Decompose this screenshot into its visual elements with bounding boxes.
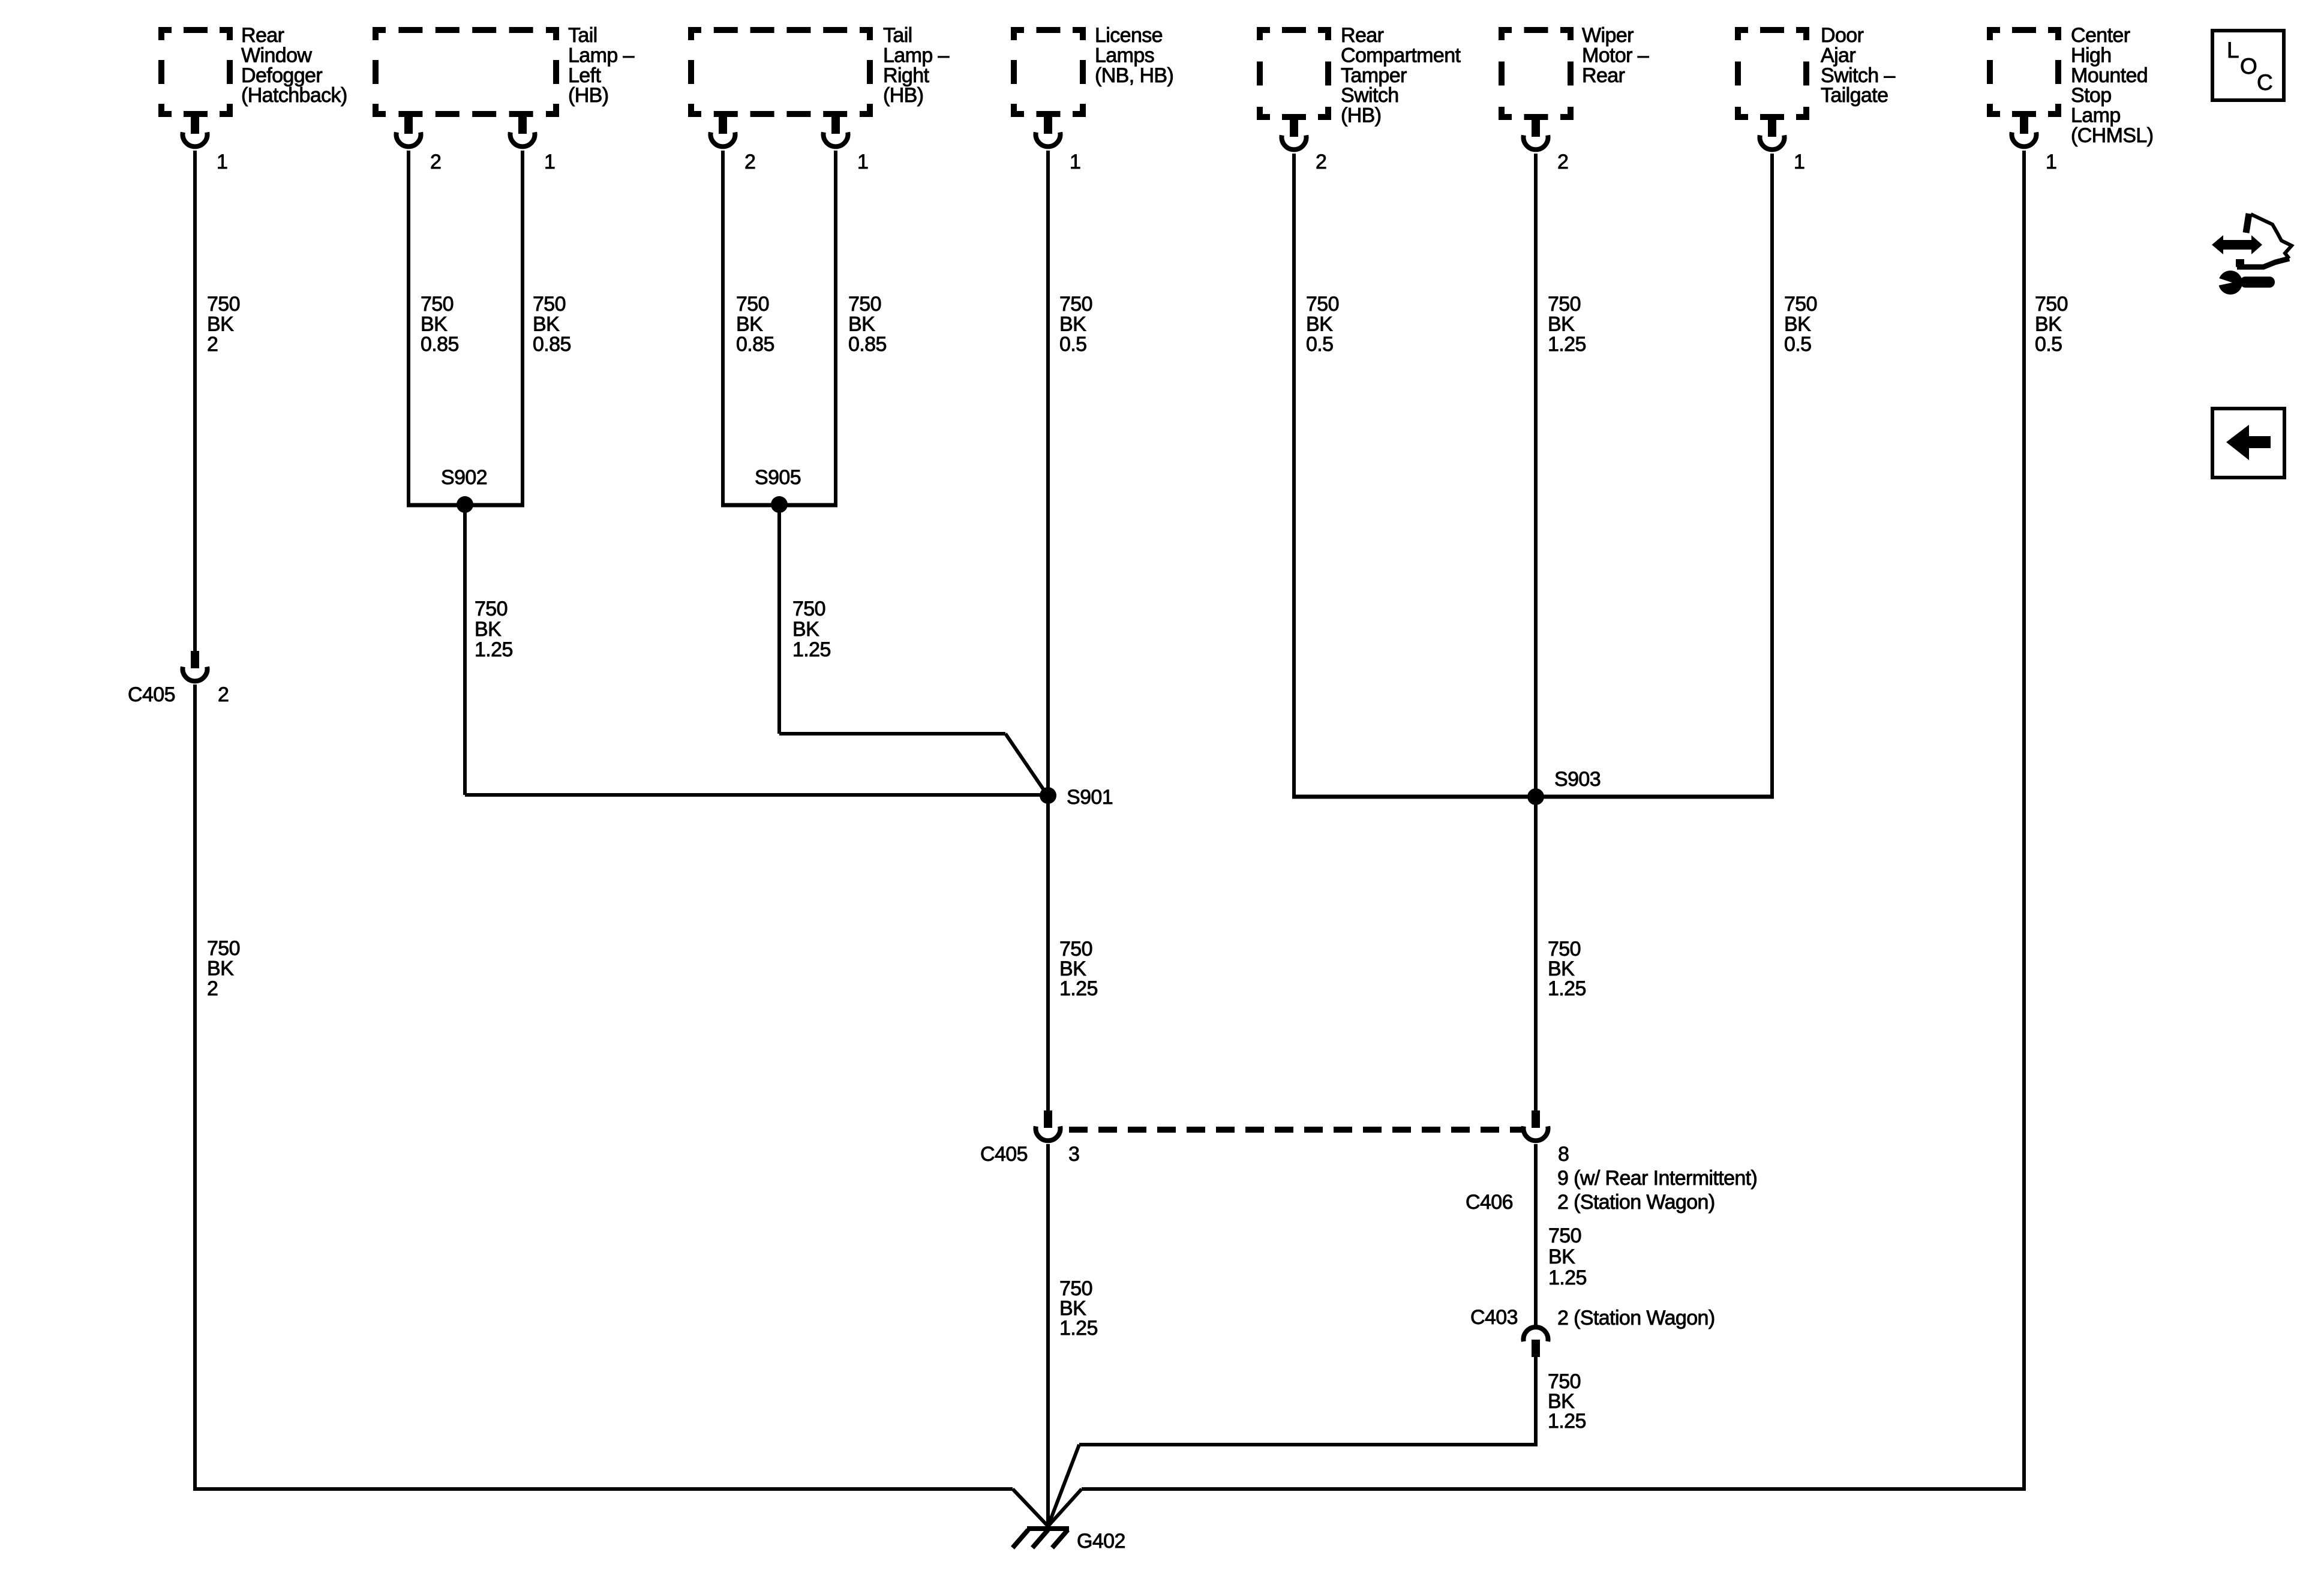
svg-text:High: High xyxy=(2071,44,2112,67)
svg-text:(HB): (HB) xyxy=(1341,104,1381,127)
svg-text:G402: G402 xyxy=(1077,1530,1125,1553)
svg-text:750: 750 xyxy=(207,937,240,960)
svg-text:Mounted: Mounted xyxy=(2071,64,2148,87)
svg-text:BK: BK xyxy=(2035,313,2062,335)
svg-text:750: 750 xyxy=(1548,1224,1581,1247)
svg-text:3: 3 xyxy=(1068,1143,1079,1166)
svg-text:Lamp: Lamp xyxy=(2071,104,2121,127)
svg-text:750: 750 xyxy=(2035,293,2068,316)
svg-text:Rear: Rear xyxy=(1341,24,1384,47)
svg-text:(HB): (HB) xyxy=(568,84,608,107)
svg-text:(HB): (HB) xyxy=(883,84,923,107)
svg-text:1.25: 1.25 xyxy=(1548,333,1586,356)
svg-text:1.25: 1.25 xyxy=(1548,977,1586,1000)
svg-text:750: 750 xyxy=(792,598,825,620)
svg-text:0.85: 0.85 xyxy=(736,333,774,356)
svg-text:750: 750 xyxy=(421,293,454,316)
svg-text:Switch –: Switch – xyxy=(1821,64,1895,87)
svg-text:1: 1 xyxy=(1070,151,1080,173)
svg-text:1.25: 1.25 xyxy=(1059,1317,1098,1340)
svg-text:750: 750 xyxy=(533,293,566,316)
svg-text:1.25: 1.25 xyxy=(475,638,513,661)
svg-text:1: 1 xyxy=(857,151,868,173)
svg-text:Tamper: Tamper xyxy=(1341,64,1407,87)
svg-text:(Hatchback): (Hatchback) xyxy=(241,84,347,107)
svg-text:BK: BK xyxy=(1784,313,1811,335)
svg-text:1.25: 1.25 xyxy=(1059,977,1098,1000)
svg-text:BK: BK xyxy=(792,618,819,641)
svg-text:Rear: Rear xyxy=(1582,64,1625,87)
svg-text:2 (Station Wagon): 2 (Station Wagon) xyxy=(1557,1307,1715,1329)
svg-text:2: 2 xyxy=(207,333,218,356)
svg-text:BK: BK xyxy=(533,313,560,335)
svg-text:Wiper: Wiper xyxy=(1582,24,1634,47)
svg-text:BK: BK xyxy=(207,313,234,335)
svg-text:Tail: Tail xyxy=(568,24,597,47)
svg-text:750: 750 xyxy=(848,293,881,316)
svg-text:750: 750 xyxy=(1784,293,1817,316)
svg-text:Defogger: Defogger xyxy=(241,64,322,87)
svg-text:BK: BK xyxy=(207,957,234,980)
svg-text:1: 1 xyxy=(217,151,227,173)
svg-text:1: 1 xyxy=(544,151,555,173)
svg-text:2: 2 xyxy=(207,977,218,1000)
svg-text:S905: S905 xyxy=(755,466,801,489)
svg-text:0.5: 0.5 xyxy=(1059,333,1086,356)
svg-text:C405: C405 xyxy=(980,1143,1028,1166)
svg-text:2: 2 xyxy=(218,683,229,706)
svg-text:0.5: 0.5 xyxy=(1306,333,1333,356)
svg-text:Stop: Stop xyxy=(2071,84,2112,107)
svg-text:1.25: 1.25 xyxy=(1548,1410,1586,1433)
svg-text:S903: S903 xyxy=(1554,768,1601,791)
svg-text:Switch: Switch xyxy=(1341,84,1399,107)
svg-text:750: 750 xyxy=(1306,293,1339,316)
svg-text:BK: BK xyxy=(1548,313,1575,335)
svg-text:BK: BK xyxy=(1306,313,1333,335)
svg-text:BK: BK xyxy=(848,313,875,335)
svg-text:BK: BK xyxy=(1059,313,1086,335)
svg-text:9 (w/ Rear Intermittent): 9 (w/ Rear Intermittent) xyxy=(1557,1167,1757,1190)
svg-text:Lamps: Lamps xyxy=(1095,44,1154,67)
svg-text:BK: BK xyxy=(1548,1245,1575,1268)
svg-text:BK: BK xyxy=(421,313,448,335)
svg-text:(NB, HB): (NB, HB) xyxy=(1095,64,1173,87)
svg-text:C405: C405 xyxy=(128,683,175,706)
svg-text:Door: Door xyxy=(1821,24,1864,47)
svg-text:Right: Right xyxy=(883,64,930,87)
svg-text:2: 2 xyxy=(744,151,755,173)
svg-text:750: 750 xyxy=(207,293,240,316)
svg-text:C: C xyxy=(2257,70,2272,95)
svg-text:750: 750 xyxy=(1059,293,1092,316)
svg-text:Compartment: Compartment xyxy=(1341,44,1461,67)
svg-text:C403: C403 xyxy=(1470,1306,1518,1329)
svg-text:2: 2 xyxy=(1557,151,1568,173)
svg-text:Ajar: Ajar xyxy=(1821,44,1855,67)
svg-text:(CHMSL): (CHMSL) xyxy=(2071,124,2153,147)
svg-text:Center: Center xyxy=(2071,24,2130,47)
svg-text:1.25: 1.25 xyxy=(792,638,831,661)
svg-text:Window: Window xyxy=(241,44,312,67)
svg-text:S902: S902 xyxy=(441,466,487,489)
svg-text:1: 1 xyxy=(1794,151,1804,173)
svg-text:0.5: 0.5 xyxy=(1784,333,1811,356)
svg-text:S901: S901 xyxy=(1067,786,1113,809)
svg-text:1.25: 1.25 xyxy=(1548,1266,1587,1289)
svg-text:0.85: 0.85 xyxy=(848,333,887,356)
svg-text:License: License xyxy=(1095,24,1163,47)
svg-text:O: O xyxy=(2240,54,2257,79)
svg-text:0.85: 0.85 xyxy=(533,333,571,356)
svg-text:Tailgate: Tailgate xyxy=(1821,84,1888,107)
svg-text:750: 750 xyxy=(475,598,508,620)
svg-text:Motor –: Motor – xyxy=(1582,44,1649,67)
svg-text:0.5: 0.5 xyxy=(2035,333,2062,356)
svg-text:Left: Left xyxy=(568,64,601,87)
svg-text:750: 750 xyxy=(736,293,769,316)
svg-text:2: 2 xyxy=(430,151,441,173)
svg-text:Lamp –: Lamp – xyxy=(883,44,949,67)
svg-text:2 (Station Wagon): 2 (Station Wagon) xyxy=(1557,1191,1715,1214)
svg-text:8: 8 xyxy=(1558,1143,1569,1166)
svg-text:1: 1 xyxy=(2046,151,2056,173)
svg-text:750: 750 xyxy=(1548,293,1581,316)
svg-text:BK: BK xyxy=(736,313,763,335)
svg-text:0.85: 0.85 xyxy=(421,333,459,356)
svg-text:C406: C406 xyxy=(1466,1191,1513,1214)
svg-text:2: 2 xyxy=(1316,151,1326,173)
svg-text:Tail: Tail xyxy=(883,24,912,47)
svg-text:Rear: Rear xyxy=(241,24,284,47)
svg-text:Lamp –: Lamp – xyxy=(568,44,634,67)
svg-text:L: L xyxy=(2227,38,2239,62)
svg-text:BK: BK xyxy=(475,618,502,641)
